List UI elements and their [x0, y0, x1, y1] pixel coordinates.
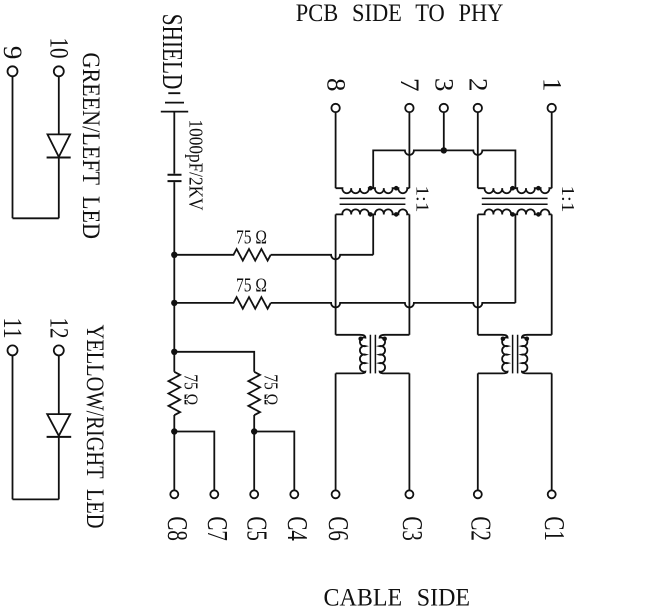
pin 7: [405, 104, 413, 112]
pin 12: [54, 345, 64, 355]
wire shield to C9: [173, 112, 175, 174]
svg-text:11: 11: [0, 318, 27, 339]
choke L2 right winding: [522, 335, 552, 374]
node A junction: [171, 252, 177, 258]
wire LED D1 to bottom: [58, 158, 60, 219]
wire pin7 to T1: [408, 112, 410, 188]
node B junction: [171, 300, 177, 306]
transformer T1 core: [340, 198, 406, 204]
LED D2 yellow/right: [47, 414, 70, 436]
T2 primary dots: [510, 186, 515, 191]
wire pin1 to T2: [551, 112, 553, 188]
svg-text:YELLOW/RIGHT LED: YELLOW/RIGHT LED: [81, 325, 108, 529]
pin C7: [210, 490, 218, 498]
wire pin8 to T1: [335, 112, 337, 188]
wire T2 secondary tap down: [514, 214, 516, 303]
svg-text:C2: C2: [464, 516, 495, 541]
svg-text:10: 10: [44, 38, 73, 59]
wire pin11 down: [12, 355, 14, 499]
choke L2 left winding: [478, 335, 508, 374]
transformer T1 primary winding: [336, 188, 410, 193]
svg-text:C4: C4: [281, 516, 312, 541]
resistor R3 75ohm vertical: [169, 372, 181, 415]
resistor R2 75ohm: [174, 297, 270, 309]
pin C5: [250, 490, 258, 498]
transformer T2 core: [482, 198, 548, 204]
wire choke L1 right to C3: [408, 373, 410, 490]
wire T1 secondary left down to choke L1: [335, 214, 337, 334]
svg-text:75 Ω: 75 Ω: [260, 374, 282, 405]
LED D1 green/left: [48, 134, 71, 157]
wire choke L2 left to C2: [477, 373, 479, 490]
svg-text:PCB SIDE TO PHY: PCB SIDE TO PHY: [296, 0, 504, 27]
pin 1: [548, 104, 556, 112]
wire C9 to node A: [173, 182, 175, 255]
wire node C to R3: [173, 352, 175, 372]
svg-text:9: 9: [0, 46, 27, 60]
svg-text:75 Ω: 75 Ω: [236, 227, 267, 249]
transformer T1 secondary winding: [336, 209, 410, 214]
wire node A to node B: [173, 255, 175, 303]
wire node D branch to C7: [174, 432, 214, 491]
pin 2: [474, 104, 482, 112]
svg-text:7: 7: [395, 78, 424, 92]
svg-text:75 Ω: 75 Ω: [179, 374, 201, 405]
wire LED1 bottom joining: [13, 217, 59, 219]
T2 secondary dots: [510, 212, 515, 217]
wire R1 to T1 tap with hop: [271, 255, 374, 259]
pin C2: [474, 490, 482, 498]
choke L1 right winding: [380, 335, 410, 374]
wire node C branch to R4: [174, 352, 254, 372]
T1 primary dots: [368, 186, 373, 191]
wire node E to C5: [253, 432, 255, 491]
wire LED2 bottom joining: [13, 498, 59, 500]
pin C8: [170, 490, 178, 498]
svg-text:3: 3: [430, 78, 459, 92]
svg-text:75 Ω: 75 Ω: [236, 275, 267, 297]
wire choke L2 right to C1: [551, 373, 553, 490]
node D junction: [171, 428, 177, 434]
pin C6: [332, 490, 340, 498]
choke L1 dots: [358, 337, 363, 342]
wire node E branch to C4: [254, 432, 294, 491]
shield chassis symbol: [161, 93, 188, 111]
pin 11: [8, 345, 18, 355]
svg-text:2: 2: [464, 78, 493, 92]
pin C1: [548, 490, 556, 498]
wire node B to node C: [173, 303, 175, 352]
wire T1 secondary tap down: [372, 214, 374, 254]
wire R4 to node E: [253, 415, 255, 432]
wire R2 to T2 tap with hops: [271, 303, 516, 308]
svg-text:1:1: 1:1: [412, 186, 432, 213]
svg-text:C3: C3: [396, 516, 427, 541]
svg-text:GREEN/LEFT LED: GREEN/LEFT LED: [77, 53, 104, 240]
wire R3 to node D: [173, 415, 175, 432]
svg-text:C5: C5: [241, 516, 272, 541]
wire pin10 to LED D1: [58, 76, 60, 134]
transformer T2 secondary winding: [478, 209, 552, 214]
pin 10: [54, 66, 64, 76]
pin 9: [8, 66, 18, 76]
wire T1 secondary right down to choke L1: [408, 214, 410, 334]
choke L1 core: [370, 335, 375, 374]
resistor R1 75ohm: [174, 249, 270, 261]
svg-text:C8: C8: [161, 516, 192, 541]
svg-text:CABLE SIDE: CABLE SIDE: [324, 585, 471, 612]
svg-text:12: 12: [44, 318, 73, 339]
svg-text:1000pF/2KV: 1000pF/2KV: [185, 120, 207, 211]
capacitor C9 1000pF/2KV: [168, 175, 182, 181]
choke L2 dots: [501, 337, 506, 342]
wire pin3 to bus: [443, 112, 445, 150]
pin 8: [331, 104, 339, 112]
wire T2 secondary left down to choke L2: [477, 214, 479, 334]
wire center-tap bus with hops: [373, 150, 515, 188]
node E junction: [251, 428, 257, 434]
resistor R4 75ohm vertical: [248, 372, 260, 415]
svg-text:C6: C6: [322, 516, 353, 541]
T1 secondary dots: [368, 212, 373, 217]
pin 3: [440, 104, 448, 112]
svg-text:C7: C7: [201, 516, 232, 541]
svg-text:1: 1: [537, 78, 566, 92]
wire choke L1 left to C6: [335, 373, 337, 490]
wire T2 secondary right down to choke L2: [551, 214, 553, 334]
pin C4: [290, 490, 298, 498]
choke L2 core: [513, 335, 518, 374]
svg-text:8: 8: [321, 78, 350, 92]
choke L1 left winding: [336, 335, 366, 374]
svg-text:SHIELD: SHIELD: [156, 14, 187, 90]
node bus junction pin3: [441, 147, 447, 153]
wire pin12 to LED D2: [58, 355, 60, 414]
svg-text:C1: C1: [538, 516, 569, 541]
wire pin2 to T2: [477, 112, 479, 188]
wire LED D2 to bottom: [58, 437, 60, 500]
svg-text:1:1: 1:1: [558, 186, 578, 213]
node C junction: [171, 349, 177, 355]
transformer T2 primary winding: [478, 188, 552, 193]
pin C3: [405, 490, 413, 498]
wire pin9 down: [12, 76, 14, 218]
wire node D to C8: [173, 432, 175, 491]
